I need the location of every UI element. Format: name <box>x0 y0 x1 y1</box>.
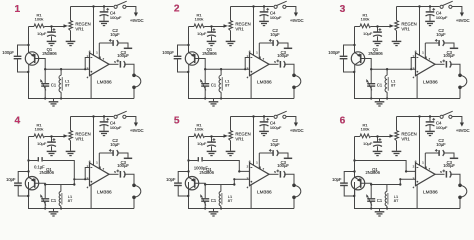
svg-text:4: 4 <box>14 116 20 127</box>
svg-text:1000µF: 1000µF <box>194 165 208 170</box>
svg-text:2: 2 <box>174 4 180 15</box>
svg-text:6: 6 <box>340 116 346 127</box>
svg-text:1: 1 <box>14 4 20 15</box>
svg-text:3: 3 <box>340 4 346 15</box>
svg-text:0.1µF: 0.1µF <box>34 165 45 170</box>
svg-text:5: 5 <box>174 116 180 127</box>
